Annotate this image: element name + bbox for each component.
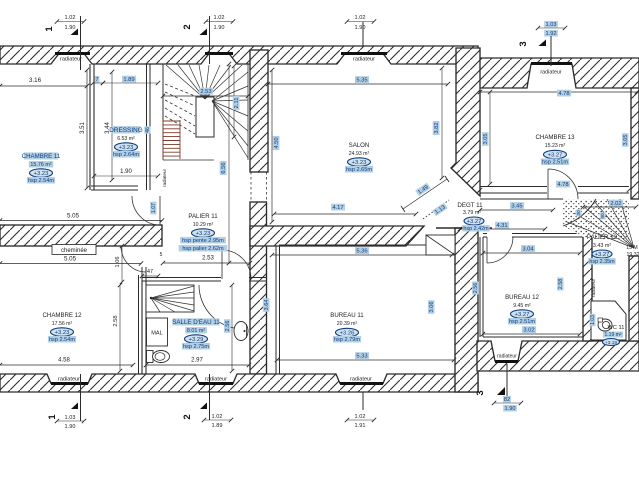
svg-text:1: 1 xyxy=(47,414,58,420)
wall bureau11 left xyxy=(275,246,277,374)
dim 2.56 bureau12 left rotated xyxy=(472,281,479,294)
svg-text:1.02: 1.02 xyxy=(65,15,76,21)
wall salle d'eau left xyxy=(141,281,143,374)
window W1 radiator bar xyxy=(55,52,90,55)
wall bureau12 top xyxy=(483,233,487,235)
dim 1.13 diagonal xyxy=(432,203,448,217)
svg-text:10.29 m²: 10.29 m² xyxy=(193,222,214,228)
svg-text:1.02: 1.02 xyxy=(214,15,225,21)
dim 30 stair12 a xyxy=(576,210,582,217)
stair palier12 curved edge xyxy=(563,199,596,226)
svg-text:3.79 m²: 3.79 m² xyxy=(463,210,481,216)
svg-text:3.16: 3.16 xyxy=(29,77,42,84)
svg-text:3.05: 3.05 xyxy=(483,134,489,145)
dim 6.56 stair/palier right xyxy=(228,64,230,263)
svg-text:+3.23: +3.23 xyxy=(119,145,134,151)
stair main newel rectangle xyxy=(196,97,214,137)
svg-text:2.53: 2.53 xyxy=(202,256,214,262)
svg-text:hsp 2.75m: hsp 2.75m xyxy=(183,344,209,350)
svg-text:WC 11: WC 11 xyxy=(608,325,625,331)
svg-text:3: 3 xyxy=(518,41,529,46)
wall bureau12 bottom edge xyxy=(483,336,583,338)
dim 1.03 wc left rotated xyxy=(590,314,597,326)
door bureau12 arc xyxy=(487,237,513,263)
svg-text:24.93 m²: 24.93 m² xyxy=(349,151,370,157)
room WC11 outline xyxy=(591,301,626,340)
svg-text:4.31: 4.31 xyxy=(496,223,507,229)
wall bureau11 right vertical xyxy=(455,228,478,392)
svg-text:+3.19: +3.19 xyxy=(605,340,617,346)
svg-text:1.90: 1.90 xyxy=(214,25,225,31)
door salle d'eau arc xyxy=(222,250,251,279)
dim 3.64 bureau11 left rotated xyxy=(263,298,270,312)
wall right edge lower xyxy=(629,256,639,341)
svg-text:9.45 m²: 9.45 m² xyxy=(513,303,531,309)
svg-text:82: 82 xyxy=(504,397,510,403)
wall bureau12 right xyxy=(583,235,592,341)
svg-text:15.76 m²: 15.76 m² xyxy=(30,162,51,168)
svg-text:+3.23: +3.23 xyxy=(196,231,211,237)
svg-text:hsp 2.51m: hsp 2.51m xyxy=(542,160,568,166)
dim 5.35 salon top xyxy=(268,83,448,85)
svg-text:1.90: 1.90 xyxy=(65,424,76,430)
shower tray xyxy=(146,285,194,312)
svg-text:4.58: 4.58 xyxy=(58,358,70,364)
svg-text:3.82: 3.82 xyxy=(434,122,440,133)
svg-text:1.19 m²: 1.19 m² xyxy=(605,332,622,338)
dim 3.04 bureau12 top xyxy=(483,252,580,254)
svg-text:4.78: 4.78 xyxy=(557,182,568,188)
window W4 radiator bar xyxy=(531,62,572,65)
svg-text:+3.27: +3.27 xyxy=(515,312,530,318)
window B2 radiator bar xyxy=(199,382,233,385)
svg-text:PALIER 11: PALIER 11 xyxy=(188,213,218,220)
dim 1.06 chambre12 door xyxy=(121,246,123,282)
svg-text:1.89: 1.89 xyxy=(212,423,223,429)
window W3 radiator bar xyxy=(341,52,387,55)
svg-text:SALLE D'EAU 11: SALLE D'EAU 11 xyxy=(172,319,220,326)
svg-text:5.35: 5.35 xyxy=(356,78,367,84)
svg-text:CHAMBRE 13: CHAMBRE 13 xyxy=(536,134,576,141)
window W2 radiator bar xyxy=(205,52,233,55)
section dim top centre xyxy=(347,21,374,23)
svg-text:3: 3 xyxy=(475,390,486,395)
wall dressing right xyxy=(146,64,148,190)
svg-text:5.05: 5.05 xyxy=(67,213,80,220)
toilet salle d'eau xyxy=(147,351,154,363)
svg-text:radiateur: radiateur xyxy=(497,354,517,360)
svg-text:1.90: 1.90 xyxy=(65,25,76,31)
svg-text:6.53 m²: 6.53 m² xyxy=(117,136,135,142)
svg-text:+3.29: +3.29 xyxy=(189,337,204,343)
wall bottom exterior left section with window notches xyxy=(0,374,478,392)
stair main upper fan treads xyxy=(166,65,205,99)
svg-text:46: 46 xyxy=(145,127,151,133)
door salon diagonal dotted opening xyxy=(423,200,449,219)
dim 2.11 stair right xyxy=(233,66,235,137)
svg-text:2.58: 2.58 xyxy=(113,315,119,326)
svg-text:6.56: 6.56 xyxy=(221,162,227,173)
svg-text:BUREAU 11: BUREAU 11 xyxy=(330,312,364,319)
svg-text:30: 30 xyxy=(576,210,582,216)
stair palier12 fan treads xyxy=(567,222,634,248)
wall salon bottom band (chamfered right end) xyxy=(250,226,424,246)
dim 3.51 chambre11 right xyxy=(86,70,88,188)
svg-text:2.56: 2.56 xyxy=(473,283,479,294)
washing machine MAL box xyxy=(147,318,168,346)
dim 1.90 dressing bottom xyxy=(94,175,158,177)
dim 4.17 salon bottom xyxy=(274,213,416,215)
room label CHAMBRE 11 xyxy=(24,152,58,159)
svg-text:1.07: 1.07 xyxy=(151,203,157,213)
wall chambre12 right xyxy=(138,275,140,374)
svg-text:1.06: 1.06 xyxy=(115,257,121,268)
svg-text:2: 2 xyxy=(182,414,193,419)
wall chambre13 bottom xyxy=(480,186,547,188)
svg-text:17.56 m²: 17.56 m² xyxy=(52,321,73,327)
wall bureau12 left xyxy=(479,237,481,337)
dim 3.82 salon right xyxy=(441,68,443,178)
svg-text:3.05: 3.05 xyxy=(623,135,629,146)
wall salon left (stair side) xyxy=(250,50,268,172)
dim 2.58 chambre12 right xyxy=(119,285,121,371)
dim 2.56 salle d'eau right xyxy=(231,285,233,371)
svg-text:hsp 2.42m: hsp 2.42m xyxy=(463,226,489,232)
svg-text:2.56: 2.56 xyxy=(225,321,231,332)
dim 5.05 chambre11 bottom xyxy=(0,220,162,222)
wall bureau11 top edge xyxy=(279,244,455,246)
svg-text:+3.27: +3.27 xyxy=(548,153,563,159)
svg-text:+3.27: +3.27 xyxy=(595,252,610,258)
svg-text:+3.23: +3.23 xyxy=(34,171,49,177)
dim 90 stair12 b xyxy=(600,213,606,220)
svg-text:3.45: 3.45 xyxy=(511,204,522,210)
door chambre13 arc xyxy=(548,169,578,199)
wall palier stub left of bath door xyxy=(141,267,143,281)
dim 3.44 dressing left xyxy=(111,72,113,180)
cheminee label box xyxy=(52,245,96,255)
dim 2.53 palier bottom xyxy=(163,262,250,264)
dim 47 palier stub xyxy=(142,275,158,277)
svg-text:BUREAU 12: BUREAU 12 xyxy=(505,294,539,301)
svg-text:3.06: 3.06 xyxy=(429,302,435,313)
room label DRESSING xyxy=(112,126,141,133)
svg-text:5.36: 5.36 xyxy=(356,249,367,255)
svg-text:47: 47 xyxy=(147,269,153,275)
svg-text:5: 5 xyxy=(160,252,163,258)
svg-text:5.33: 5.33 xyxy=(356,354,367,360)
svg-text:1.03: 1.03 xyxy=(590,315,596,325)
svg-text:1.90: 1.90 xyxy=(505,406,516,412)
svg-text:PALIER 12: PALIER 12 xyxy=(587,234,618,241)
svg-text:2.97: 2.97 xyxy=(191,358,203,364)
dim 2.53 stair top xyxy=(163,95,248,97)
wall chambre11/dressing xyxy=(89,64,91,190)
dim 3.45 degt xyxy=(480,209,553,211)
dim 2.02 palier12 top xyxy=(583,206,636,208)
svg-text:2.53: 2.53 xyxy=(200,89,211,95)
stair main right boundary xyxy=(247,64,249,160)
svg-text:hsp 2.54m: hsp 2.54m xyxy=(28,178,54,184)
svg-text:radiateur: radiateur xyxy=(60,57,82,63)
svg-text:hsp 2.79m: hsp 2.79m xyxy=(334,337,360,343)
window B1 radiator bar xyxy=(51,382,88,385)
dim 5.36 bureau11 top xyxy=(272,254,452,256)
wall top exterior right section with window notch xyxy=(473,58,639,88)
stair palier12 dotted region xyxy=(563,199,629,242)
svg-text:1.91: 1.91 xyxy=(355,423,366,429)
svg-text:radiateur: radiateur xyxy=(162,168,167,187)
wall top exterior left section with window notches xyxy=(0,46,478,64)
svg-text:90: 90 xyxy=(600,213,606,219)
svg-text:hsp 2.65m: hsp 2.65m xyxy=(346,167,372,173)
svg-text:2.58: 2.58 xyxy=(558,279,564,290)
dim 4.78 chambre13 top xyxy=(480,91,637,93)
svg-text:1.89: 1.89 xyxy=(123,77,134,83)
window B3 radiator bar xyxy=(340,382,383,385)
svg-text:hsp 2.54m: hsp 2.54m xyxy=(49,337,75,343)
svg-text:4.78: 4.78 xyxy=(558,91,569,97)
wall bottom exterior right section with window notch xyxy=(477,341,639,371)
room label SALLE D'EAU 11 xyxy=(172,318,219,325)
dim 3.05 chambre13 left xyxy=(489,92,491,184)
svg-text:CHAMBRE 12: CHAMBRE 12 xyxy=(43,312,83,319)
stair lower wooden flight treads xyxy=(163,120,180,122)
wall palier/salle d'eau right xyxy=(250,202,267,374)
svg-text:SALON: SALON xyxy=(349,142,370,149)
dim 1.49 diagonal xyxy=(403,179,447,209)
svg-text:MAL: MAL xyxy=(151,331,163,337)
wall thick between salon and chambre13 (chamfered bottom) xyxy=(451,48,480,196)
wall DEGT bottom xyxy=(436,227,492,229)
stair main left boundary xyxy=(162,64,164,160)
svg-text:1: 1 xyxy=(44,26,55,32)
door chambre12 arc xyxy=(121,246,146,272)
dim 3.16 chambre11 top xyxy=(0,85,87,87)
wall dressing bottom xyxy=(91,185,138,187)
svg-text:3.51: 3.51 xyxy=(80,122,86,134)
svg-text:20.39 m²: 20.39 m² xyxy=(337,321,358,327)
dim 2.97 salle d'eau bottom xyxy=(146,364,249,366)
stair left boundary upper xyxy=(162,64,164,120)
svg-text:1.03: 1.03 xyxy=(546,22,557,28)
dim 4.50 salon left xyxy=(271,70,273,222)
svg-text:DEGT 11: DEGT 11 xyxy=(457,202,483,209)
svg-text:radiateur: radiateur xyxy=(591,278,596,297)
svg-text:radiateur: radiateur xyxy=(205,377,227,383)
dim 4.78 chambre13 above bottom wall xyxy=(480,189,629,191)
shower spray lines xyxy=(150,297,152,299)
svg-text:2: 2 xyxy=(182,24,193,29)
svg-text:3.64: 3.64 xyxy=(264,300,270,311)
wall right edge upper (chambre13 right) xyxy=(631,88,639,199)
svg-text:7: 7 xyxy=(95,77,98,83)
svg-text:+3.23: +3.23 xyxy=(55,330,70,336)
dim 3.06 bureau11 right rotated xyxy=(428,300,435,314)
svg-text:CHAMBRE 11: CHAMBRE 11 xyxy=(22,153,61,160)
svg-text:15 M: 15 M xyxy=(626,245,638,251)
svg-text:19.32: 19.32 xyxy=(627,252,639,258)
svg-text:radiateur: radiateur xyxy=(540,70,561,76)
svg-text:3.43 m²: 3.43 m² xyxy=(593,243,611,249)
door leaf rect near bureau11 top xyxy=(426,235,455,255)
dim 1.89 dressing xyxy=(103,82,158,84)
dim 5.33 bureau11 bottom xyxy=(277,359,454,361)
dim 2.58 bureau12 right rotated xyxy=(557,277,564,290)
washbasin oval xyxy=(234,322,248,341)
svg-text:1.90: 1.90 xyxy=(120,169,132,175)
dim 4.58 chambre12 bottom xyxy=(0,364,133,366)
salon door opening dashed jambs xyxy=(250,172,252,202)
svg-text:1.03: 1.03 xyxy=(65,415,76,421)
svg-text:1.02: 1.02 xyxy=(355,414,366,420)
dim 5.05 chambre12 top xyxy=(0,263,141,265)
svg-text:DRESSING: DRESSING xyxy=(109,127,142,134)
stair main right fan treads xyxy=(212,72,248,101)
svg-text:2.02: 2.02 xyxy=(610,201,621,207)
dim 4.31 degt bottom xyxy=(460,228,545,230)
svg-text:1.02: 1.02 xyxy=(355,15,366,21)
dim 3.02 bureau12 bottom xyxy=(483,333,580,335)
svg-text:8.01 m²: 8.01 m² xyxy=(187,328,205,334)
svg-text:3.02: 3.02 xyxy=(523,328,534,334)
dim 1.07 near dressing door xyxy=(150,202,157,215)
svg-text:hsp 2.51m: hsp 2.51m xyxy=(509,319,535,325)
svg-text:2.11: 2.11 xyxy=(234,98,240,109)
wall salle d'eau top xyxy=(142,277,221,279)
svg-text:radiateur: radiateur xyxy=(353,57,375,63)
svg-text:5.05: 5.05 xyxy=(64,256,77,263)
svg-text:hsp pente 2.95m: hsp pente 2.95m xyxy=(182,238,224,244)
svg-text:radiateur: radiateur xyxy=(58,377,80,383)
svg-text:hsp palier 2.62m: hsp palier 2.62m xyxy=(182,246,224,252)
svg-text:+3.26: +3.26 xyxy=(340,331,355,337)
svg-text:+3.23: +3.23 xyxy=(352,160,367,166)
dim 3.05 chambre13 right rotated xyxy=(622,133,629,147)
svg-text:hsp 2.64m: hsp 2.64m xyxy=(113,152,139,158)
door dressing arc xyxy=(132,196,160,225)
svg-text:cheminée: cheminée xyxy=(61,248,88,254)
svg-text:4.17: 4.17 xyxy=(332,205,343,211)
window B4 radiator bar xyxy=(495,360,518,363)
svg-text:1.02: 1.02 xyxy=(212,414,223,420)
toilet wc11 xyxy=(598,319,612,331)
svg-text:3.04: 3.04 xyxy=(522,247,534,253)
svg-text:radiateur: radiateur xyxy=(350,377,372,383)
svg-text:4.50: 4.50 xyxy=(274,137,280,148)
svg-text:+3.27: +3.27 xyxy=(467,219,482,225)
section dim bottom centre xyxy=(362,392,364,410)
svg-text:15.23 m²: 15.23 m² xyxy=(545,143,566,149)
wall DEGT top edge xyxy=(480,198,563,200)
dim 46 dressing right rotated xyxy=(144,126,151,133)
stair upper flight dashed (cut line zone) xyxy=(165,84,195,96)
dim 7 dressing xyxy=(93,82,103,84)
svg-text:1.90: 1.90 xyxy=(355,25,366,31)
wall chimney band xyxy=(0,225,162,246)
svg-text:hsp 2.35m: hsp 2.35m xyxy=(589,259,615,265)
